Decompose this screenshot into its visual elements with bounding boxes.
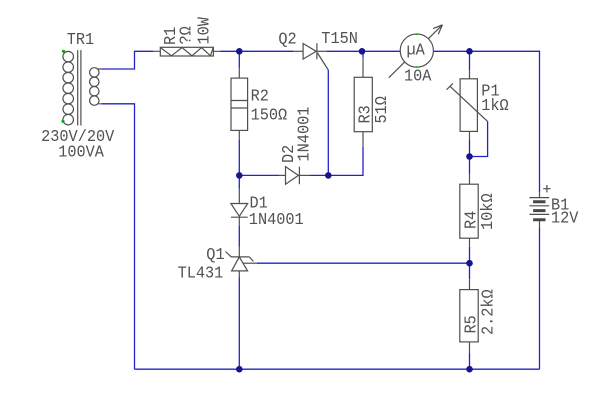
- wire sec-bottom down left side: [102, 104, 135, 369]
- svg-text:T15N: T15N: [321, 30, 358, 49]
- svg-text:1N4001: 1N4001: [249, 211, 304, 230]
- label 10W (rotated): [196, 16, 215, 44]
- svg-text:Q2: Q2: [278, 31, 296, 50]
- shunt regulator Q1 TL431: [231, 247, 257, 278]
- transformer TR1: [63, 50, 102, 125]
- label T15N: [321, 30, 358, 49]
- label Q1: [206, 246, 224, 265]
- junction D2 cathode / gate: [325, 172, 332, 179]
- label ?ohm (rotated): [178, 26, 197, 44]
- junction D2 anode: [236, 172, 243, 179]
- wire R1 to Q2 anode: [221, 50, 294, 52]
- svg-text:Q1: Q1: [206, 246, 224, 265]
- wire D2 cathode to node C: [310, 174, 329, 176]
- label TL431: [178, 265, 224, 284]
- svg-text:10kΩ: 10kΩ: [479, 193, 498, 230]
- svg-text:12V: 12V: [551, 210, 579, 229]
- resistor R1: [153, 47, 221, 56]
- pin dot meter bottom: [416, 66, 418, 68]
- label R4 (rotated): [463, 211, 482, 229]
- label D1: [250, 195, 268, 214]
- label 100VA: [58, 144, 104, 163]
- wire P1 wiper to node F: [470, 121, 488, 156]
- label 51ohm (rotated): [373, 96, 392, 123]
- wire D1 to Q1: [238, 226, 240, 247]
- svg-text:150Ω: 150Ω: [251, 107, 288, 126]
- label 1N4001 (D1): [249, 211, 304, 230]
- label R2: [251, 88, 269, 107]
- resistor R5: [460, 279, 478, 352]
- svg-text:R2: R2: [251, 88, 269, 107]
- svg-text:µA: µA: [407, 42, 426, 61]
- pin dot TR1 primary bottom: [61, 120, 64, 123]
- label B1: [551, 197, 569, 216]
- label 230V/20V: [41, 128, 115, 147]
- label D2 (rotated): [280, 145, 299, 163]
- svg-text:?Ω: ?Ω: [178, 26, 197, 44]
- wire Q1 ref to R4/R5 node: [257, 262, 470, 264]
- junction R5 rail: [466, 366, 473, 373]
- label R1 (rotated): [162, 27, 181, 45]
- wire node B to D2 anode: [239, 174, 279, 176]
- wire Q2 gate down: [327, 70, 329, 175]
- svg-text:1kΩ: 1kΩ: [481, 97, 508, 116]
- junction P1 wiper: [466, 153, 473, 160]
- wire Q2 cathode to meter: [327, 50, 401, 52]
- label Q2: [278, 31, 296, 50]
- junction R2 top: [236, 48, 243, 55]
- label P1: [481, 83, 499, 102]
- wire node D to R3 top: [362, 51, 364, 57]
- label uA: [407, 42, 426, 61]
- svg-text:10A: 10A: [404, 68, 432, 87]
- svg-text:2.2kΩ: 2.2kΩ: [480, 289, 499, 335]
- svg-text:10W: 10W: [196, 16, 215, 44]
- wire P1 bottom to R4: [469, 140, 471, 174]
- svg-text:51Ω: 51Ω: [373, 96, 392, 123]
- wire meter to battery top: [434, 51, 540, 192]
- label TR1: [67, 31, 94, 50]
- diode D1: [231, 189, 248, 226]
- wire node E to P1 top: [469, 51, 471, 70]
- wire battery bottom to rail: [539, 228, 541, 370]
- diode D2: [280, 167, 310, 185]
- svg-text:100VA: 100VA: [58, 144, 104, 163]
- resistor R4: [460, 174, 478, 247]
- label 1kohm: [481, 97, 508, 116]
- junction Q1 rail: [236, 366, 243, 373]
- battery plus sign: [543, 185, 550, 192]
- label 2.2kohm (rotated): [480, 289, 499, 335]
- resistor R3: [354, 57, 372, 146]
- label 150ohm: [251, 107, 288, 126]
- wire sec-top to R1: [102, 51, 154, 69]
- label 1N4001 D2 (rotated): [296, 107, 315, 162]
- thyristor Q2: [293, 43, 328, 70]
- junction R3 top: [359, 48, 366, 55]
- wire R3 bottom to node C: [328, 147, 363, 176]
- label R3 (rotated): [357, 105, 376, 123]
- wire bottom rail: [135, 368, 540, 370]
- potentiometer P1: [447, 70, 488, 140]
- junction R4/R5: [466, 260, 473, 267]
- wire R5 bottom to rail: [469, 352, 471, 369]
- svg-text:1N4001: 1N4001: [296, 107, 315, 162]
- svg-text:TL431: TL431: [178, 265, 224, 284]
- wire node A to R2 top: [238, 51, 240, 67]
- pin dot meter top: [416, 33, 418, 35]
- wire R2 bottom to D1: [238, 140, 240, 189]
- resistor R2: [231, 68, 248, 141]
- ammeter M1: [389, 25, 443, 78]
- leader line Q1: [226, 252, 232, 258]
- wire R4 bottom to R5 top: [469, 247, 471, 279]
- label R5 (rotated): [463, 315, 482, 333]
- svg-text:TR1: TR1: [67, 31, 94, 50]
- label 10kohm (rotated): [479, 193, 498, 230]
- battery B1: [529, 192, 549, 227]
- pin dot TR1 primary top: [62, 50, 65, 53]
- wire Q1 anode to rail: [238, 278, 240, 370]
- label 10A: [404, 68, 432, 87]
- junction P1 top: [466, 48, 473, 55]
- label 12V: [551, 210, 579, 229]
